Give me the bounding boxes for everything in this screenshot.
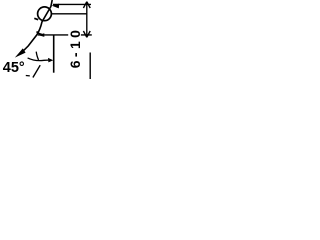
svg-text:6-10: 6-10 — [67, 27, 83, 69]
svg-text:45°: 45° — [3, 60, 25, 76]
